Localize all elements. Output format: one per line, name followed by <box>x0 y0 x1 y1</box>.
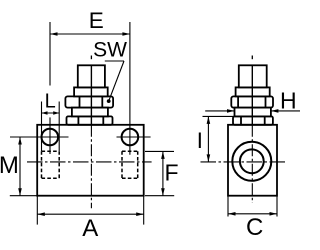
svg-text:E: E <box>89 8 104 33</box>
svg-text:I: I <box>197 128 203 153</box>
svg-text:M: M <box>0 152 19 179</box>
svg-text:F: F <box>165 159 179 185</box>
svg-text:C: C <box>246 214 263 241</box>
svg-text:L: L <box>45 91 56 113</box>
svg-text:SW: SW <box>93 38 127 61</box>
svg-text:H: H <box>280 87 297 113</box>
svg-text:A: A <box>82 215 98 242</box>
